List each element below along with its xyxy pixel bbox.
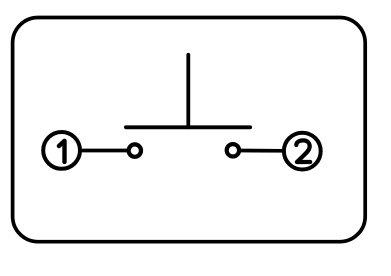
left contact circle bbox=[129, 144, 141, 156]
actuator bar bbox=[126, 125, 250, 129]
actuator stem bbox=[186, 55, 190, 128]
wire from right contact to terminal 2 bbox=[240, 149, 285, 153]
terminal circle 1 bbox=[43, 132, 80, 169]
terminal circle 2 bbox=[284, 133, 321, 170]
right contact circle bbox=[227, 144, 239, 156]
label 2 bbox=[296, 140, 310, 162]
border frame bbox=[13, 18, 366, 242]
label 1 bbox=[59, 141, 65, 162]
wire from terminal 1 to left contact bbox=[80, 149, 128, 153]
